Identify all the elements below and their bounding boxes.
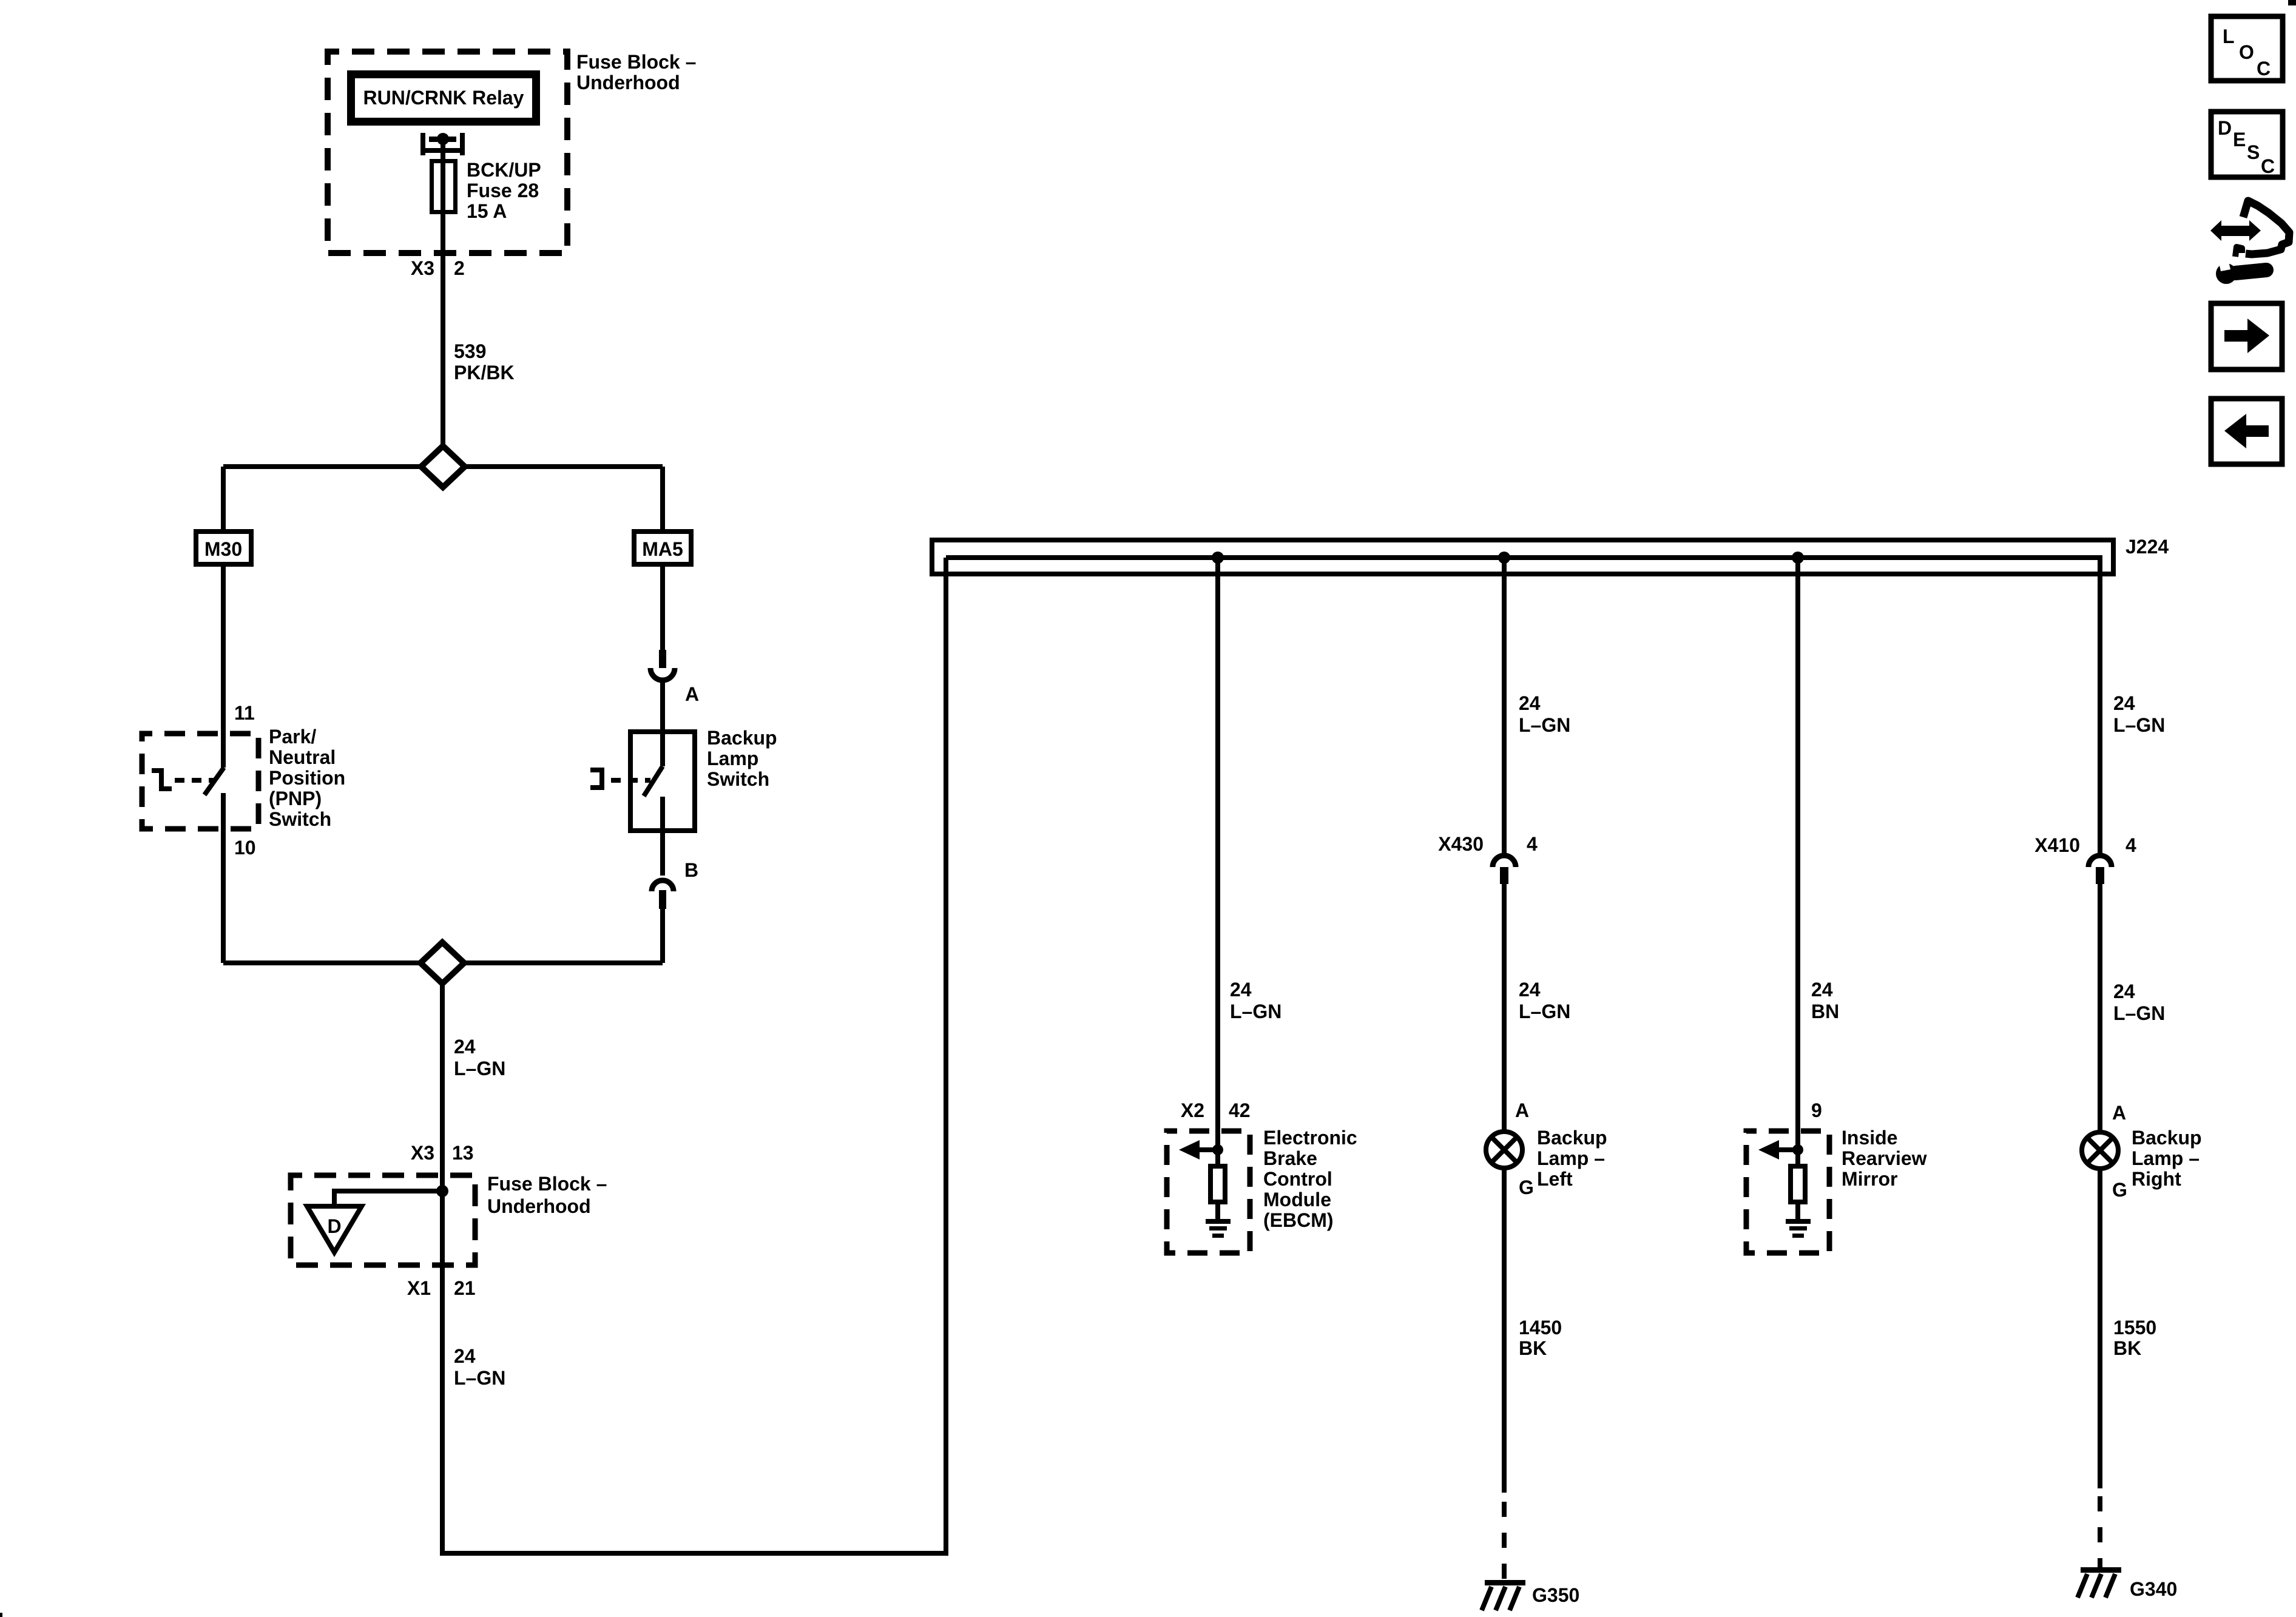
- junction dot bus 2: [1498, 552, 1510, 564]
- svg-text:X1: X1: [407, 1277, 431, 1299]
- wire X430 to lamp left: [1502, 883, 1507, 1132]
- PNP actuator dashed link: [175, 778, 214, 783]
- in-line connector terminal B (dome and blade): [652, 880, 674, 909]
- icon hand with double arrow: [2210, 201, 2289, 257]
- svg-text:11: 11: [234, 702, 255, 724]
- junction dot bus 1: [1212, 552, 1224, 564]
- svg-text:Left: Left: [1537, 1168, 1573, 1190]
- svg-text:C: C: [2261, 155, 2275, 177]
- svg-text:Switch: Switch: [707, 768, 769, 790]
- svg-text:(PNP): (PNP): [269, 788, 322, 809]
- ground triangle D: [307, 1206, 362, 1252]
- svg-text:L–GN: L–GN: [454, 1367, 505, 1389]
- junction dot EBCM: [1212, 1144, 1223, 1155]
- svg-text:24: 24: [2113, 981, 2135, 1002]
- splice pack J224 box: [932, 540, 2113, 574]
- label Fuse Block - Underhood (bottom): [487, 1173, 607, 1217]
- svg-text:L–GN: L–GN: [1230, 1001, 1281, 1022]
- label Backup Lamp Switch: [707, 727, 777, 790]
- svg-text:Switch: Switch: [269, 808, 331, 830]
- wire bottom splice down, right and up to J224: [442, 558, 946, 1553]
- svg-text:Mirror: Mirror: [1842, 1168, 1897, 1190]
- label Electronic Brake Control Module (EBCM): [1263, 1127, 1357, 1231]
- inside rearview mirror dashed box: [1746, 1131, 1829, 1253]
- PNP switch dashed box: [142, 734, 258, 829]
- svg-text:10: 10: [234, 837, 256, 859]
- svg-text:1450: 1450: [1519, 1317, 1562, 1338]
- switch upper contact wire: [660, 729, 665, 766]
- switch actuator bracket: [590, 768, 604, 790]
- in-line connector X430 (dome and blade): [1493, 856, 1516, 884]
- junction dot in fuse block: [436, 1185, 448, 1197]
- PNP switch blade: [204, 768, 224, 795]
- mirror arrow: [1758, 1140, 1798, 1160]
- wire label 539 PK/BK: [454, 340, 515, 383]
- pin label X3 13: [411, 1142, 474, 1164]
- connector MA5: [634, 532, 691, 564]
- svg-text:Electronic: Electronic: [1263, 1127, 1357, 1149]
- pin label X1 21: [407, 1277, 476, 1299]
- svg-text:S: S: [2247, 141, 2260, 163]
- svg-text:24: 24: [454, 1345, 476, 1367]
- svg-text:BK: BK: [1519, 1337, 1547, 1359]
- backup lamp switch box: [630, 732, 695, 831]
- svg-text:B: B: [684, 859, 698, 881]
- switch actuator dashed link: [611, 778, 650, 783]
- svg-text:24: 24: [454, 1036, 476, 1058]
- svg-text:L: L: [2223, 25, 2235, 47]
- label Inside Rearview Mirror: [1842, 1127, 1927, 1190]
- wire label 24 L-GN (right lower): [2113, 981, 2165, 1024]
- svg-text:Fuse Block –: Fuse Block –: [576, 51, 696, 73]
- icon wrench: [2216, 254, 2266, 284]
- wire resistor to ground (mirror): [1795, 1204, 1800, 1220]
- svg-text:A: A: [2112, 1102, 2126, 1124]
- EBCM arrow: [1179, 1140, 1218, 1160]
- wire label 1550 BK: [2113, 1317, 2156, 1359]
- svg-text:24: 24: [1519, 692, 1541, 714]
- svg-text:Module: Module: [1263, 1189, 1331, 1210]
- wire label 24 L-GN (left lower): [1519, 979, 1570, 1022]
- wire label 24 L-GN (left upper): [1519, 692, 1570, 736]
- svg-text:Lamp –: Lamp –: [1537, 1147, 1605, 1169]
- wire MA5 to in-line connector A: [660, 567, 665, 650]
- svg-text:(EBCM): (EBCM): [1263, 1209, 1334, 1231]
- ground symbol mirror: [1786, 1219, 1811, 1238]
- svg-text:Backup: Backup: [2132, 1127, 2202, 1149]
- junction dot relay terminal: [437, 133, 449, 145]
- svg-text:Neutral: Neutral: [269, 746, 336, 768]
- relay box RUN/CRNK Relay: [351, 75, 536, 122]
- svg-text:13: 13: [452, 1142, 474, 1164]
- svg-text:Backup: Backup: [707, 727, 777, 749]
- wire bus inside J224 and down to X410: [946, 558, 2100, 854]
- wire dot to resistor (mirror): [1795, 1150, 1800, 1166]
- wire PNP switch to bottom splice: [221, 793, 226, 963]
- svg-text:PK/BK: PK/BK: [454, 362, 515, 383]
- wire top horizontal between branches: [223, 464, 663, 469]
- junction dot bus 3: [1792, 552, 1804, 564]
- svg-text:X3: X3: [411, 1142, 434, 1164]
- wire label 24 L-GN (right upper): [2113, 692, 2165, 736]
- wire M30 to PNP switch: [221, 567, 226, 768]
- wire dot to resistor: [1215, 1150, 1220, 1166]
- pin label X3 2: [411, 257, 465, 279]
- svg-text:15 A: 15 A: [467, 200, 507, 222]
- svg-text:24: 24: [1811, 979, 1833, 1001]
- svg-text:Park/: Park/: [269, 726, 316, 748]
- fuse block underhood (top) dashed outline: [328, 52, 567, 253]
- svg-text:Control: Control: [1263, 1168, 1332, 1190]
- wire bus to backup lamp left: [1502, 558, 1507, 854]
- pin label X2 42: [1181, 1099, 1251, 1121]
- svg-text:4: 4: [1527, 833, 1538, 855]
- wire X410 to lamp right: [2098, 883, 2102, 1132]
- svg-text:MA5: MA5: [642, 538, 683, 560]
- wire label 24 BN: [1811, 979, 1839, 1022]
- svg-text:Lamp –: Lamp –: [2132, 1147, 2200, 1169]
- switch blade: [644, 766, 663, 796]
- svg-text:4: 4: [2125, 834, 2136, 856]
- svg-text:X410: X410: [2034, 834, 2080, 856]
- page corner mark top right: [2288, 0, 2296, 5]
- wire from relay through fuse down to splice: [441, 139, 445, 446]
- pin label X410 4: [2034, 834, 2136, 856]
- dashed wire to G340: [2098, 1496, 2102, 1567]
- splice diamond (bottom): [420, 942, 464, 984]
- label BCK/UP Fuse 28 15 A: [467, 159, 541, 222]
- svg-text:Underhood: Underhood: [576, 72, 680, 93]
- EBCM dashed box: [1167, 1131, 1250, 1253]
- svg-text:D: D: [327, 1215, 341, 1237]
- wire bus to EBCM: [1215, 558, 1220, 1150]
- wire lamp left to ground: [1502, 1168, 1507, 1493]
- icon box arrow left: [2211, 399, 2282, 464]
- label Backup Lamp - Right: [2132, 1127, 2202, 1190]
- icon box arrow right: [2211, 303, 2282, 370]
- resistor mirror: [1791, 1166, 1805, 1202]
- wire resistor to ground: [1215, 1204, 1220, 1220]
- svg-text:L–GN: L–GN: [1519, 1001, 1570, 1022]
- wire label 24 L-GN (EBCM): [1230, 979, 1281, 1022]
- svg-text:G: G: [1519, 1176, 1534, 1198]
- wire right branch down to MA5: [660, 467, 665, 529]
- junction dot mirror: [1792, 1144, 1803, 1155]
- svg-text:G350: G350: [1532, 1584, 1579, 1606]
- fuse block underhood (bottom) dashed outline: [291, 1175, 475, 1265]
- svg-text:BN: BN: [1811, 1001, 1839, 1022]
- svg-text:L–GN: L–GN: [454, 1058, 505, 1079]
- svg-text:L–GN: L–GN: [2113, 1002, 2165, 1024]
- ground G340: [2078, 1567, 2121, 1598]
- svg-text:J224: J224: [2125, 536, 2169, 558]
- svg-text:24: 24: [1519, 979, 1541, 1001]
- svg-text:Fuse Block –: Fuse Block –: [487, 1173, 607, 1195]
- splice diamond (top): [421, 446, 465, 487]
- svg-text:M30: M30: [204, 538, 242, 560]
- label Fuse Block - Underhood (top): [576, 51, 696, 93]
- in-line connector terminal A (blade and cup): [650, 650, 675, 680]
- svg-text:Right: Right: [2132, 1168, 2181, 1190]
- ground symbol EBCM: [1206, 1219, 1231, 1238]
- svg-text:9: 9: [1811, 1099, 1822, 1121]
- resistor EBCM: [1210, 1166, 1225, 1202]
- svg-text:G340: G340: [2130, 1578, 2177, 1600]
- svg-text:Fuse 28: Fuse 28: [467, 180, 539, 201]
- svg-text:Backup: Backup: [1537, 1127, 1607, 1149]
- label Backup Lamp - Left: [1537, 1127, 1607, 1190]
- wire lamp right down: [2098, 1169, 2102, 1488]
- svg-text:21: 21: [454, 1277, 476, 1299]
- PNP actuator bracket: [152, 768, 172, 791]
- relay pin bracket: [420, 133, 465, 155]
- svg-text:539: 539: [454, 340, 486, 362]
- svg-text:24: 24: [2113, 692, 2135, 714]
- svg-text:42: 42: [1229, 1099, 1251, 1121]
- svg-text:Inside: Inside: [1842, 1127, 1897, 1149]
- svg-text:X2: X2: [1181, 1099, 1204, 1121]
- wire left branch down to M30: [221, 467, 226, 529]
- wire label 1450 BK: [1519, 1317, 1562, 1359]
- wire connector A to switch box: [660, 683, 665, 729]
- svg-text:L–GN: L–GN: [1519, 714, 1570, 736]
- svg-text:1550: 1550: [2113, 1317, 2156, 1338]
- svg-text:Lamp: Lamp: [707, 748, 758, 769]
- svg-text:D: D: [2218, 117, 2232, 139]
- backup lamp left bulb: [1486, 1132, 1522, 1168]
- svg-text:24: 24: [1230, 979, 1252, 1001]
- ground G350: [1482, 1580, 1525, 1610]
- wire connector B to bottom line: [660, 909, 665, 963]
- svg-text:RUN/CRNK Relay: RUN/CRNK Relay: [363, 87, 524, 109]
- svg-text:L–GN: L–GN: [2113, 714, 2165, 736]
- connector M30: [196, 532, 251, 564]
- svg-text:Rearview: Rearview: [1842, 1147, 1927, 1169]
- wire label 24 L-GN (above X3 13): [454, 1036, 505, 1079]
- svg-text:Brake: Brake: [1263, 1147, 1317, 1169]
- svg-text:BCK/UP: BCK/UP: [467, 159, 541, 181]
- label Park/Neutral Position (PNP) Switch: [269, 726, 345, 830]
- svg-text:X430: X430: [1438, 833, 1484, 855]
- svg-text:C: C: [2257, 58, 2271, 79]
- wire bottom horizontal between branches: [223, 960, 663, 965]
- dashed wire to G350: [1502, 1502, 1507, 1580]
- icon box DESC: [2211, 112, 2283, 177]
- svg-text:E: E: [2233, 129, 2246, 150]
- pin label X430 4: [1438, 833, 1538, 855]
- backup lamp right bulb: [2082, 1132, 2118, 1169]
- page corner mark bottom left: [0, 1613, 2, 1617]
- svg-text:O: O: [2239, 41, 2254, 63]
- svg-text:Underhood: Underhood: [487, 1195, 591, 1217]
- svg-text:A: A: [685, 683, 699, 705]
- wire label 24 L-GN (below X1 21): [454, 1345, 505, 1389]
- svg-text:X3: X3: [411, 257, 434, 279]
- svg-text:2: 2: [454, 257, 465, 279]
- wire to ground triangle: [334, 1191, 442, 1206]
- in-line connector X410 (dome and blade): [2088, 856, 2112, 884]
- svg-text:G: G: [2112, 1179, 2127, 1201]
- switch lower contact wire: [660, 797, 665, 876]
- fuse BCK/UP Fuse 28 15 A: [432, 161, 456, 212]
- wire bus to inside rearview mirror: [1795, 558, 1800, 1150]
- icon box LOC: [2211, 16, 2283, 81]
- svg-text:BK: BK: [2113, 1337, 2141, 1359]
- svg-text:A: A: [1515, 1099, 1529, 1121]
- svg-text:Position: Position: [269, 767, 345, 789]
